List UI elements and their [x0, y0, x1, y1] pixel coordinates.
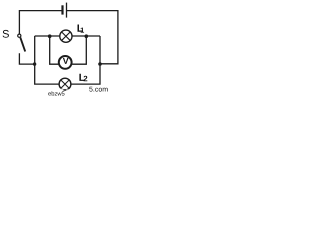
svg-text:ebzw5: ebzw5: [48, 91, 65, 96]
svg-text:5.com: 5.com: [89, 87, 108, 94]
